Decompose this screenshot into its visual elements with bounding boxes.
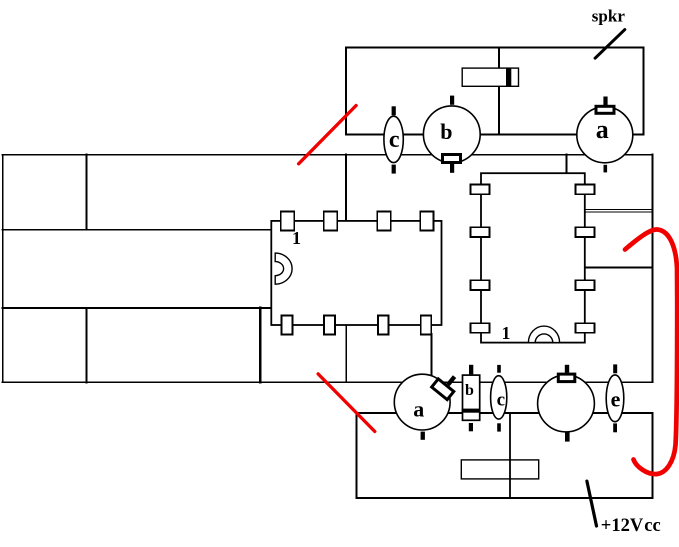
svg-text:+12V: +12V	[601, 516, 644, 536]
svg-text:e: e	[611, 387, 621, 412]
svg-text:a: a	[596, 115, 609, 144]
svg-text:c: c	[389, 127, 400, 153]
svg-text:c: c	[497, 390, 505, 411]
svg-text:spkr: spkr	[592, 6, 626, 25]
svg-text:b: b	[440, 119, 452, 144]
svg-text:b: b	[465, 382, 474, 399]
svg-text:cc: cc	[644, 516, 660, 536]
svg-text:1: 1	[502, 323, 511, 343]
svg-text:1: 1	[292, 228, 301, 248]
svg-text:a: a	[413, 396, 424, 421]
